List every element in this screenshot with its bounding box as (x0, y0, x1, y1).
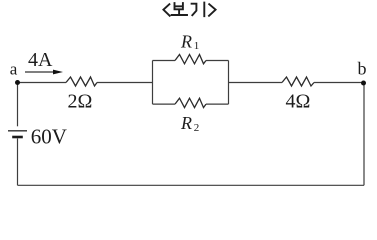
svg-text:60V: 60V (31, 125, 67, 149)
svg-text:R: R (180, 32, 192, 52)
wire: box to 4ohm (229, 82, 283, 84)
wire: bottom (18, 184, 365, 186)
svg-text:2: 2 (194, 122, 200, 134)
resistor R1 zigzag (175, 55, 206, 64)
svg-text:4Ω: 4Ω (286, 91, 311, 113)
wire: right vertical (363, 83, 365, 185)
title <보기> (163, 3, 215, 17)
svg-text:2Ω: 2Ω (68, 91, 93, 113)
svg-text:4A: 4A (28, 49, 53, 71)
wire: 4ohm to node b (314, 82, 364, 84)
svg-text:a: a (10, 59, 18, 78)
resistor R2 zigzag (175, 98, 206, 107)
svg-text:1: 1 (194, 40, 200, 52)
wire: parallel box left edge (152, 61, 154, 105)
resistor 2ohm zigzag (66, 77, 97, 86)
wire: bottom branch right (206, 103, 229, 105)
resistor 4ohm zigzag (282, 77, 314, 86)
battery negative plate (short thick) (12, 136, 23, 139)
wire: left vertical above battery (17, 83, 19, 127)
wire: 2ohm to parallel box (97, 82, 153, 84)
svg-text:b: b (358, 59, 367, 79)
svg-text:R: R (180, 113, 192, 133)
wire: top branch right (206, 60, 229, 62)
battery positive plate (long) (8, 130, 27, 132)
node a (15, 80, 20, 85)
wire: top branch left (153, 60, 176, 62)
node b (361, 81, 366, 86)
wire: left vertical below battery (17, 139, 19, 186)
wire: main horizontal left segment a to 2ohm (18, 82, 67, 84)
wire: bottom branch left (153, 103, 176, 105)
current arrow 4A (25, 70, 63, 75)
wire: parallel box right edge (228, 61, 230, 105)
